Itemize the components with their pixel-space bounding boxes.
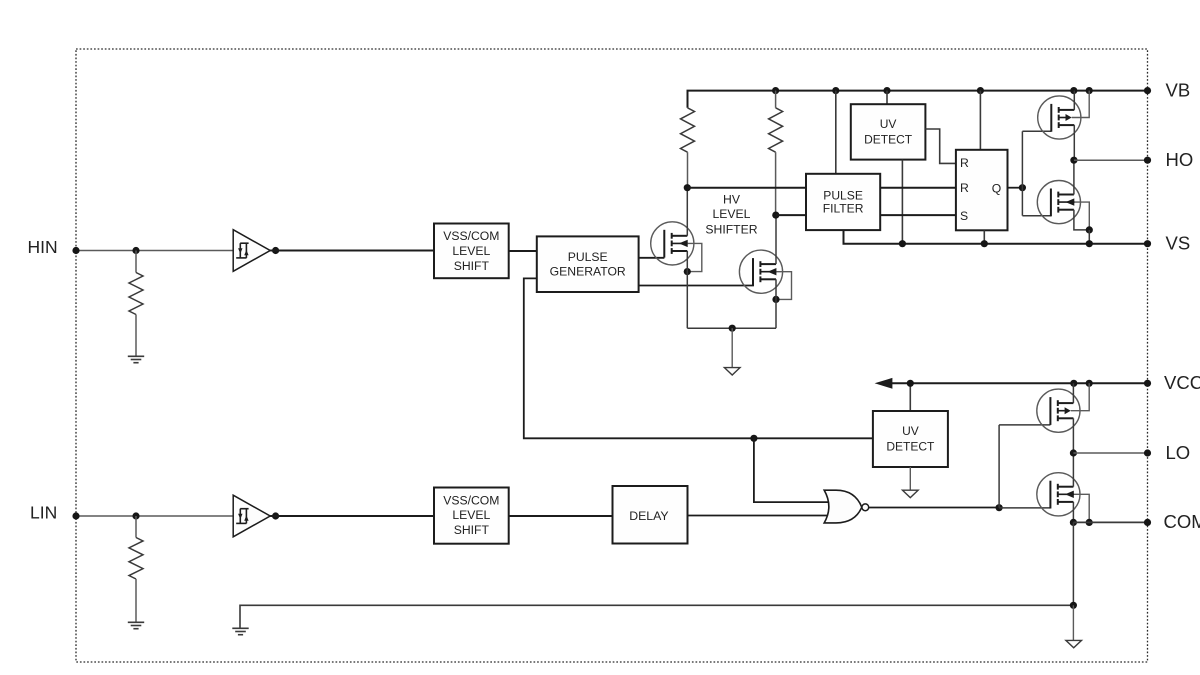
wire Q to output gates xyxy=(1021,131,1023,215)
svg-text:VB: VB xyxy=(1166,79,1191,100)
wire pulse generator reset output xyxy=(639,285,754,287)
wire NOR output xyxy=(869,507,999,509)
wire M-HS-N drain to HO xyxy=(1073,160,1075,194)
wire latch return to VS rail xyxy=(983,230,985,243)
wire buffer HIN to VSS/COM level shift xyxy=(270,250,434,252)
pin label COM xyxy=(1164,511,1200,532)
node HIN pin xyxy=(72,247,79,254)
node UV detect return / VS rail xyxy=(899,240,906,247)
wire level shifter common rail xyxy=(687,327,776,329)
node VB rail / pulse filter supply xyxy=(832,87,839,94)
wire VCC to UV detect supply xyxy=(909,383,911,411)
node M-LO-N body / COM rail xyxy=(1086,519,1093,526)
wire pulse filter to VS rail xyxy=(844,230,1148,244)
wire M-LO-P source to LO xyxy=(1072,418,1074,453)
block PULSE FILTER xyxy=(806,174,880,230)
wire tap branch to NOR input xyxy=(754,438,830,502)
node substrate return xyxy=(1070,602,1077,609)
wire M-HS-P source to HO xyxy=(1073,125,1075,160)
node buffer HIN output xyxy=(272,247,279,254)
resistor R-HIN pulldown xyxy=(129,273,143,315)
wire R line to pulse filter xyxy=(687,187,806,189)
wire gate M-HS-N xyxy=(1022,215,1051,217)
wire pulse filter S to latch xyxy=(880,214,956,216)
wire M-HS-P drain to VB xyxy=(1073,91,1075,110)
wire substrate to COM arrow xyxy=(1072,605,1074,640)
svg-text:DETECT: DETECT xyxy=(886,439,935,453)
wire M-LS2 source xyxy=(775,279,777,328)
wire pulse generator set output xyxy=(639,257,665,259)
wire M-LS1 drain xyxy=(686,188,688,236)
node pin VCC xyxy=(1144,380,1151,387)
svg-text:UV: UV xyxy=(902,424,919,438)
wire M-LO-N body to COM xyxy=(1074,494,1089,522)
node level shifter rail / VS arrow xyxy=(729,325,736,332)
schmitt buffer HIN xyxy=(233,230,270,272)
transistor M-LO-N (LO pull-down) xyxy=(1037,473,1080,516)
svg-text:VS: VS xyxy=(1166,233,1191,254)
wire M-LO-N source to COM xyxy=(1072,502,1074,523)
node NOR output / gate drive xyxy=(996,504,1003,511)
wire COM rail xyxy=(1073,521,1147,523)
node LIN / pulldown junction xyxy=(132,512,139,519)
node pin VS xyxy=(1144,240,1151,247)
node M-LO-N source / COM rail xyxy=(1070,519,1077,526)
svg-text:LEVEL: LEVEL xyxy=(452,508,490,522)
wire HO to pin xyxy=(1074,159,1148,161)
node VCC rail / M-LS-P body xyxy=(1086,380,1093,387)
wire to VS return arrow xyxy=(731,328,733,367)
node R-HV2 / M-LS2 drain / S input xyxy=(772,212,779,219)
wire delay to NOR input xyxy=(688,515,828,517)
wire M-LO-P drain to VCC xyxy=(1072,383,1074,403)
block UV DETECT (high side) xyxy=(851,104,926,159)
wire gate M-LO-P xyxy=(999,424,1050,426)
svg-text:S: S xyxy=(960,209,968,223)
wire latch Q output xyxy=(1008,187,1023,189)
arrow to COM (UV detect return) xyxy=(903,490,919,497)
node VB rail / latch supply xyxy=(977,87,984,94)
wire R-HV1 to node xyxy=(687,152,689,188)
svg-text:VSS/COM: VSS/COM xyxy=(443,229,499,243)
node R-HV1 / M-LS1 drain / R input xyxy=(684,184,691,191)
wire level-shift to pulse generator xyxy=(509,250,537,252)
wire VB to latch supply xyxy=(979,91,981,150)
wire UV detect return xyxy=(909,467,911,491)
wire VB rail xyxy=(688,91,1148,108)
schmitt buffer LIN xyxy=(233,495,270,537)
wire VB to pulse filter supply xyxy=(835,91,837,174)
wire buffer LIN to VSS/COM level shift xyxy=(270,515,434,517)
transistor M-HS-N (HO pull-down) xyxy=(1037,181,1080,224)
svg-text:FILTER: FILTER xyxy=(823,202,864,216)
node HIN / pulldown junction xyxy=(132,247,139,254)
node latch return / VS rail xyxy=(981,240,988,247)
svg-text:SHIFT: SHIFT xyxy=(454,259,490,273)
pin label VB xyxy=(1166,79,1191,100)
node VB rail / UV detect supply xyxy=(883,87,890,94)
svg-text:LO: LO xyxy=(1166,442,1191,463)
wire LO to pin xyxy=(1073,452,1147,454)
svg-text:Q: Q xyxy=(992,181,1001,195)
transistor M-LO-P (LO pull-up) xyxy=(1037,389,1080,432)
resistor R-LIN pulldown lead xyxy=(135,516,137,538)
resistor R-HV2 xyxy=(769,108,783,152)
svg-text:LEVEL: LEVEL xyxy=(713,207,751,221)
pin label LIN xyxy=(30,503,57,523)
node pin LO xyxy=(1144,449,1151,456)
node M-HS-N / VS rail xyxy=(1086,240,1093,247)
wire M-LS1 body loop xyxy=(687,243,702,271)
wire LIN pin to input buffer xyxy=(76,515,233,517)
node Q gate drive xyxy=(1019,184,1026,191)
wire COM to substrate return xyxy=(1072,522,1074,605)
wire M-HS-P body to VB xyxy=(1072,91,1090,118)
wire R-HIN to ground xyxy=(135,315,137,357)
block RS latch xyxy=(956,150,1008,231)
wire NOR to output gates xyxy=(998,425,1000,508)
arrow to VS (level shifter return) xyxy=(724,368,740,375)
transistor M-LS2 (HV level shift, reset) xyxy=(739,250,782,293)
svg-text:VSS/COM: VSS/COM xyxy=(443,493,499,507)
node pin VB xyxy=(1144,87,1151,94)
node VCC rail / M-LS-P drain xyxy=(1070,380,1077,387)
wire M-LO-P body to VCC xyxy=(1071,383,1089,410)
arrow to COM (substrate return) xyxy=(1066,640,1082,647)
svg-text:HIN: HIN xyxy=(28,237,58,257)
svg-text:HV: HV xyxy=(723,192,741,206)
node VB rail / M-HS-P drain xyxy=(1070,87,1077,94)
svg-text:R: R xyxy=(960,181,969,195)
svg-text:R: R xyxy=(960,156,969,170)
svg-text:SHIFTER: SHIFTER xyxy=(705,222,757,236)
node LO xyxy=(1070,449,1077,456)
svg-text:GENERATOR: GENERATOR xyxy=(550,265,626,279)
node M-HS-N source/body tie xyxy=(1086,226,1093,233)
svg-text:SHIFT: SHIFT xyxy=(454,523,490,537)
node VB rail / R-HV2 xyxy=(772,87,779,94)
ground VSS (logic return) xyxy=(232,628,248,634)
svg-text:LEVEL: LEVEL xyxy=(452,244,490,258)
svg-text:LIN: LIN xyxy=(30,503,57,523)
block VSS/COM LEVEL SHIFT (high side) xyxy=(434,224,509,279)
block PULSE GENERATOR xyxy=(537,236,639,292)
wire gate M-HS-P xyxy=(1022,130,1051,132)
wire HIN pin to input buffer xyxy=(76,250,233,252)
pin label LO xyxy=(1166,442,1191,463)
wire M-HS-N source xyxy=(1074,210,1089,230)
gate NOR (low side drive) xyxy=(824,490,868,523)
wire R-HV2 to node xyxy=(775,152,777,215)
node buffer LIN output xyxy=(272,512,279,519)
wire VSS return (bottom) xyxy=(240,605,1073,628)
wire M-HS-N source to VS rail xyxy=(1088,230,1090,244)
wire pulse generator tap to UV detect xyxy=(524,278,873,438)
node pin COM xyxy=(1144,519,1151,526)
wire pulse filter R to latch xyxy=(880,187,956,189)
pin label VS xyxy=(1166,233,1191,254)
pin label HIN xyxy=(28,237,58,257)
svg-text:HO: HO xyxy=(1166,149,1194,170)
node LIN pin xyxy=(72,512,79,519)
node M-LS2 source/body tie xyxy=(772,296,779,303)
svg-text:PULSE: PULSE xyxy=(568,250,608,264)
resistor R-HV1 xyxy=(681,108,695,152)
node VB rail / M-HS-P body xyxy=(1086,87,1093,94)
svg-text:VCC: VCC xyxy=(1164,372,1200,393)
svg-text:DELAY: DELAY xyxy=(629,509,668,523)
resistor R-HV2 lead top xyxy=(775,91,777,108)
transistor M-HS-P (HO pull-up) xyxy=(1038,96,1081,139)
block DELAY xyxy=(613,486,688,544)
node HO xyxy=(1070,157,1077,164)
pin label HO xyxy=(1166,149,1194,170)
wire M-LS2 drain xyxy=(775,215,777,264)
wire VCC rail xyxy=(891,382,1148,384)
wire M-LS2 body loop xyxy=(776,272,792,300)
label HV LEVEL SHIFTER xyxy=(705,192,757,236)
wire gate M-LO-N xyxy=(999,507,1050,509)
wire R-LIN to ground xyxy=(135,579,137,622)
node pin HO xyxy=(1144,157,1151,164)
transistor M-LS1 (HV level shift, set) xyxy=(651,222,694,265)
wire M-HS-N body xyxy=(1075,202,1090,230)
resistor R-HIN pulldown lead xyxy=(135,251,137,273)
wire level-shift to delay xyxy=(509,515,613,517)
svg-text:UV: UV xyxy=(880,117,897,131)
wire UV detect return to VS rail xyxy=(901,160,903,244)
pin label VCC xyxy=(1164,372,1200,393)
ground VSS below R-LIN xyxy=(128,622,144,628)
svg-text:COM: COM xyxy=(1164,511,1200,532)
resistor R-LIN pulldown xyxy=(129,538,143,580)
node tap / NOR branch xyxy=(750,435,757,442)
wire UV detect to latch R input xyxy=(925,129,956,163)
ground VSS below R-HIN xyxy=(128,356,144,362)
node VCC rail / UV detect supply xyxy=(907,380,914,387)
svg-text:DETECT: DETECT xyxy=(864,133,913,147)
node M-LS1 source/body tie xyxy=(684,268,691,275)
wire M-LS1 source xyxy=(686,251,688,328)
block VSS/COM LEVEL SHIFT (low side) xyxy=(434,488,509,544)
wire M-LO-N drain to LO xyxy=(1072,453,1074,487)
block UV DETECT (low side) xyxy=(873,411,948,467)
arrow VCC distribution xyxy=(875,378,893,389)
wire S line to pulse filter xyxy=(776,214,806,216)
wire VB to UV detect supply xyxy=(886,91,888,105)
